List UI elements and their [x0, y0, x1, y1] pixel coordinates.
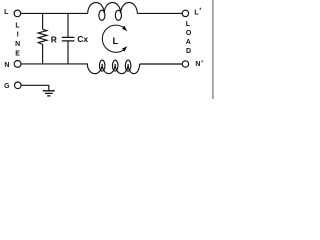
svg-text:E: E	[15, 50, 20, 57]
flux arrowhead top	[122, 26, 127, 32]
wire top rail left	[21, 12, 88, 14]
wire capacitor branch top	[67, 13, 69, 37]
terminal N' (load neutral)	[182, 61, 188, 67]
choke bottom winding	[87, 64, 139, 74]
svg-text:N: N	[195, 61, 200, 68]
svg-text:L: L	[15, 22, 20, 29]
choke top winding loop 2	[115, 10, 121, 20]
wire top rail right	[137, 12, 182, 14]
wire resistor branch top	[42, 13, 44, 29]
svg-text:D: D	[186, 48, 191, 55]
resistor R	[38, 29, 47, 44]
label N' prime	[201, 60, 204, 62]
terminal L' (load line)	[182, 10, 188, 16]
wire bottom rail left	[21, 63, 88, 65]
svg-text:G: G	[4, 83, 10, 90]
choke bottom winding loop 2	[112, 60, 118, 71]
choke bottom winding loop 3	[125, 60, 131, 71]
ground symbol	[43, 91, 55, 96]
terminal G (ground input)	[14, 82, 21, 89]
right edge border	[212, 0, 214, 99]
svg-text:N: N	[15, 41, 20, 48]
svg-text:A: A	[186, 39, 191, 46]
flux arrow circle	[102, 25, 124, 52]
wire bottom rail right	[140, 63, 183, 65]
svg-text:L: L	[194, 9, 199, 16]
svg-text:O: O	[186, 30, 192, 37]
terminal L (line input)	[14, 10, 21, 17]
svg-text:Cx: Cx	[77, 34, 88, 44]
flux arrowhead bottom	[122, 46, 127, 52]
label L' prime	[199, 8, 202, 10]
svg-text:L: L	[4, 9, 9, 16]
wire ground lead	[21, 85, 49, 91]
wire capacitor branch bottom	[67, 42, 69, 64]
choke top winding	[88, 2, 138, 13]
choke bottom winding loop 1	[99, 60, 105, 71]
svg-text:I: I	[17, 32, 19, 39]
terminal N (neutral input)	[14, 61, 21, 68]
svg-text:R: R	[51, 34, 57, 44]
capacitor Cx plates	[62, 37, 75, 41]
wire resistor branch bottom	[42, 44, 44, 64]
svg-text:L: L	[186, 21, 191, 28]
svg-text:N: N	[4, 62, 9, 69]
svg-text:L: L	[113, 36, 119, 47]
choke top winding loop 1	[99, 10, 105, 20]
